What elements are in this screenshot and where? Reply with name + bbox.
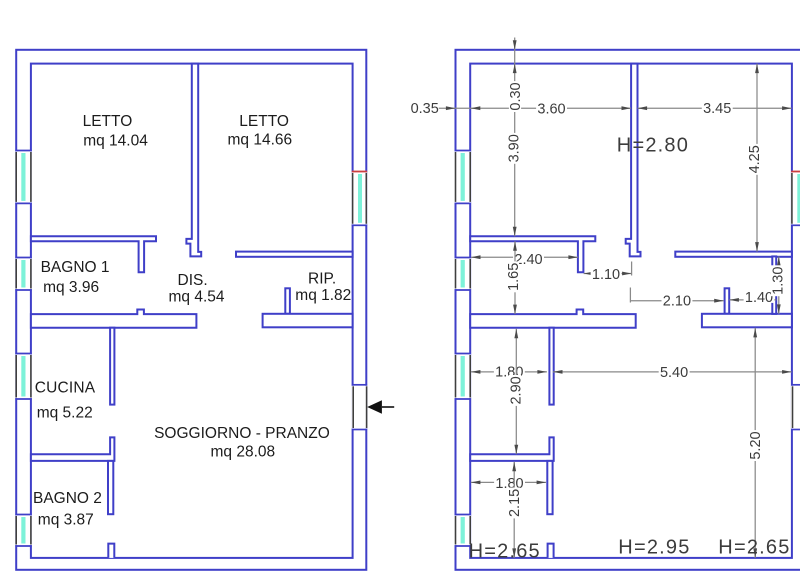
svg-text:0.35: 0.35: [411, 101, 439, 117]
dim 5.40: [553, 371, 792, 373]
svg-text:mq 1.82: mq 1.82: [295, 287, 351, 304]
svg-text:2.10: 2.10: [663, 294, 691, 310]
window BAGNO2 right plan: [455, 515, 472, 547]
svg-text:BAGNO 2: BAGNO 2: [33, 490, 102, 507]
dim 1.80 bagno2: [471, 481, 546, 483]
wall LETTO2 bottom right plan: [675, 252, 792, 257]
svg-text:3.90: 3.90: [506, 134, 522, 162]
svg-text:2.90: 2.90: [508, 376, 524, 404]
entry door right plan: [791, 385, 800, 430]
wall RIP left left plan: [285, 288, 290, 314]
wall LETTO2 bottom left plan: [236, 252, 353, 257]
dim 1.10: [584, 273, 632, 275]
dim 3.60: [471, 107, 631, 109]
entry door left plan: [352, 385, 368, 430]
dim 1.80 cucina: [471, 371, 547, 373]
svg-text:0.30: 0.30: [508, 82, 524, 110]
dim 2.90: [515, 329, 517, 455]
dim 1.30: [778, 257, 780, 314]
window LETTO2 left plan: [352, 172, 368, 226]
window CUCINA left plan: [15, 354, 32, 400]
svg-text:SOGGIORNO - PRANZO: SOGGIORNO - PRANZO: [154, 425, 330, 442]
partition LETTO1/LETTO2 left plan: [186, 64, 201, 257]
door stub bottom wall right plan: [548, 544, 554, 558]
svg-text:1.40: 1.40: [745, 290, 773, 306]
thick wall SOGGIORNO top-right left plan: [263, 314, 353, 328]
dim 1.65: [514, 241, 516, 314]
partition LETTO1/LETTO2 right plan: [626, 64, 641, 257]
outer wall right plan: [456, 50, 800, 570]
dim 4.25: [756, 64, 758, 252]
window BAGNO2 left plan: [15, 515, 32, 547]
wall CUCINA right left plan: [110, 328, 114, 405]
svg-text:mq 5.22: mq 5.22: [37, 405, 93, 422]
wall BAGNO1 top with door jamb left plan: [31, 236, 156, 272]
svg-text:3.45: 3.45: [703, 101, 731, 117]
wall BAGNO2 right left plan: [108, 461, 113, 514]
dim 2.10: [630, 300, 723, 302]
svg-text:mq 28.08: mq 28.08: [211, 444, 276, 461]
svg-text:LETTO: LETTO: [239, 113, 289, 130]
window BAGNO1 left plan: [15, 258, 32, 291]
svg-text:2.15: 2.15: [507, 489, 523, 517]
window LETTO2 right plan: [791, 172, 800, 226]
thick wall below BAGNO1-DIS right plan: [470, 310, 636, 328]
svg-text:H=2.80: H=2.80: [617, 134, 689, 156]
window LETTO1 right plan: [455, 151, 472, 204]
thick wall SOGGIORNO top-right right plan: [702, 314, 792, 328]
svg-text:4.25: 4.25: [747, 145, 763, 173]
dim 0.30 and 3.90: [514, 38, 516, 237]
window BAGNO1 right plan: [455, 258, 472, 291]
wall BAGNO2 top with stub right plan: [470, 437, 554, 461]
inner wall line right plan: [470, 64, 792, 558]
window LETTO1 left plan: [15, 151, 32, 204]
dim 3.45: [638, 107, 792, 109]
svg-text:3.60: 3.60: [537, 102, 565, 118]
svg-text:mq 3.96: mq 3.96: [43, 279, 99, 296]
svg-text:1.10: 1.10: [592, 267, 620, 283]
svg-text:CUCINA: CUCINA: [35, 380, 96, 397]
svg-text:5.20: 5.20: [748, 431, 764, 459]
dim 0.35 wall thickness: [439, 107, 471, 109]
svg-text:LETTO: LETTO: [83, 113, 133, 130]
thick wall below BAGNO1-DIS left plan: [31, 310, 197, 328]
wall BAGNO1 top with door jamb right plan: [470, 236, 595, 272]
svg-text:H=2.65: H=2.65: [718, 537, 790, 559]
svg-text:5.40: 5.40: [660, 365, 688, 381]
dim 2.15: [513, 462, 515, 558]
inner wall line left plan: [31, 64, 353, 558]
dim 5.20: [754, 328, 756, 558]
svg-text:1.65: 1.65: [506, 263, 522, 291]
svg-text:RIP.: RIP.: [308, 271, 336, 288]
svg-text:BAGNO 1: BAGNO 1: [41, 259, 110, 276]
outer wall left plan: [16, 50, 366, 570]
dim 1.40: [729, 299, 776, 301]
wall BAGNO2 top with stub left plan: [31, 437, 115, 461]
svg-text:H=2.65: H=2.65: [469, 541, 541, 563]
svg-text:1.30: 1.30: [770, 267, 786, 295]
door stub bottom wall left plan: [108, 544, 114, 558]
entry arrow: [367, 400, 382, 413]
svg-text:mq 14.66: mq 14.66: [228, 132, 293, 149]
svg-text:H=2.95: H=2.95: [618, 537, 690, 559]
wall BAGNO2 right right plan: [547, 461, 552, 514]
wall RIP left right plan: [725, 288, 730, 314]
dim 2.40: [471, 256, 578, 258]
extra wall right plan: [772, 256, 776, 314]
svg-text:mq 4.54: mq 4.54: [169, 288, 225, 305]
window CUCINA right plan: [455, 354, 472, 400]
wall CUCINA right right plan: [549, 328, 553, 405]
svg-text:mq 14.04: mq 14.04: [83, 133, 148, 150]
svg-text:DIS.: DIS.: [178, 272, 208, 289]
svg-text:mq 3.87: mq 3.87: [38, 512, 94, 529]
